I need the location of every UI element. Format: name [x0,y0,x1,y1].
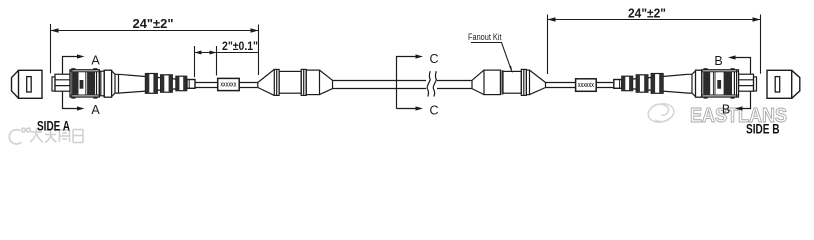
watermark logo bottom-left [9,128,30,144]
svg-text:SIDE B: SIDE B [746,122,780,137]
svg-text:SIDE A: SIDE A [37,118,70,133]
trunk cable right [437,81,472,89]
svg-text:A: A [91,103,100,117]
svg-text:Fanout Kit: Fanout Kit [468,32,502,42]
connector A crimp chamfer [112,71,119,97]
fanout B taper [530,70,546,95]
boot B end piece [614,80,622,89]
svg-text:2"±0.1": 2"±0.1" [222,39,258,53]
connector A ferrule tip [52,77,55,91]
fanout B band 2 [521,69,526,95]
section B marker bottom [735,91,751,110]
fanout A cone [258,69,275,95]
dust cap B slot [775,77,780,92]
fanout kit callout leader [471,43,512,71]
svg-text:XXXXXX: XXXXXX [220,82,237,88]
dimension 24 left: dim line [51,30,259,32]
svg-text:24"±2": 24"±2" [133,17,174,31]
leg cable A [195,83,218,88]
dimension 24 right: arrows [548,17,761,21]
dimension 2 inch: extension lines [195,46,217,77]
fanout A band 2 [301,69,306,95]
trunk cable left [333,81,427,89]
connector A crimp [104,70,111,97]
svg-text:A: A [91,54,100,68]
fanout B body 2 [503,71,521,93]
fanout A body 1 [279,71,301,93]
section C marker [397,54,424,110]
connector B crimp chamfer [687,71,696,97]
boot A ridges [145,74,186,94]
dust cap A slot [27,77,32,92]
svg-text:24"±2": 24"±2" [628,6,666,20]
dimension 24 left: arrows [51,28,259,32]
dimension 2 inch: dim line [195,52,259,54]
boot B ridges [622,74,663,94]
section B marker top [728,55,751,74]
connector A coupling [99,71,104,96]
fanout B cone [472,70,484,95]
dust cap A [12,70,43,98]
fanout B end ring [526,70,529,95]
fanout A body 2 [306,70,319,95]
fanout B band 1 [501,70,503,95]
svg-text:B: B [722,103,730,117]
connector B ferrule [739,74,754,91]
watermark CJK text bottom-left [30,129,83,143]
break symbol [427,71,436,96]
boot B cone [622,74,688,93]
dimension 24 right: dim line [548,19,761,21]
connector B housing [702,68,739,98]
leg cable A2 [239,83,258,88]
svg-text:C: C [429,52,438,66]
section A marker bottom [63,92,85,111]
watermark swirl logo right [646,101,675,124]
dimension 24 left: extension lines [51,24,259,75]
svg-text:XXXXXX: XXXXXX [578,83,595,89]
svg-text:B: B [714,54,722,68]
dust cap B [767,70,800,98]
boot A cone [119,74,189,93]
connector B ferrule tip [754,77,757,91]
leg cable B [546,83,576,88]
fanout kit callout arrowhead [509,66,512,74]
label B [576,79,597,92]
dimension 24 right: extension lines [548,15,761,75]
fanout B body 1 [484,70,500,95]
connector A housing [70,68,99,98]
connector A ferrule [55,74,70,91]
label A [218,78,240,90]
fanout A taper [320,70,333,95]
dimension 2 inch: arrows [195,51,217,55]
fanout A band 1 [274,69,279,95]
connector B crimp [696,70,702,97]
section A marker top [63,54,85,74]
svg-text:C: C [429,103,438,117]
boot A end piece [187,80,195,89]
leg cable B2 [596,83,614,88]
